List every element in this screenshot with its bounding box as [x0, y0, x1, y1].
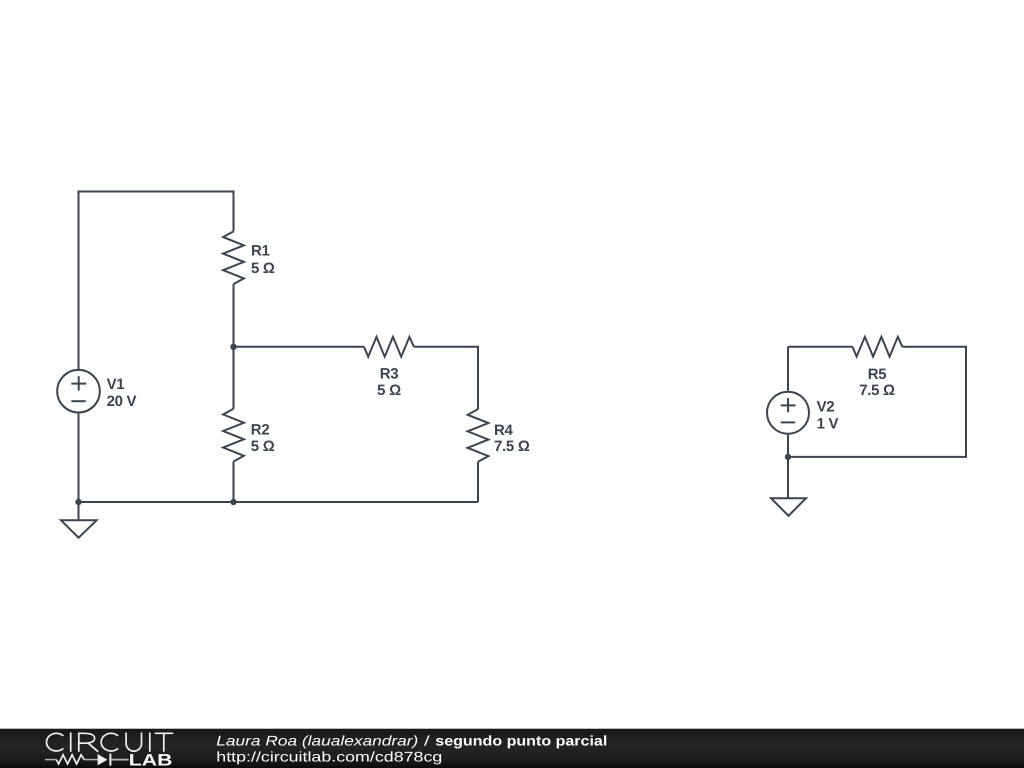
label R1	[251, 243, 275, 278]
node A	[230, 344, 236, 350]
svg-text:7.5 Ω: 7.5 Ω	[859, 382, 895, 399]
svg-text:http://circuitlab.com/cd878cg: http://circuitlab.com/cd878cg	[216, 749, 442, 765]
resistor R5	[852, 337, 902, 357]
node D	[785, 454, 791, 460]
voltage source V1	[57, 370, 100, 413]
wire	[787, 347, 789, 391]
svg-text:5 Ω: 5 Ω	[377, 382, 401, 399]
node C	[230, 499, 236, 505]
label V1	[107, 376, 137, 410]
wire	[234, 346, 365, 348]
logo diode triangle	[98, 754, 108, 765]
svg-text:7.5 Ω: 7.5 Ω	[494, 438, 530, 455]
wire	[79, 501, 479, 503]
svg-text:LAB: LAB	[129, 752, 173, 768]
logo CIRCUIT	[46, 733, 173, 752]
svg-text:R3: R3	[380, 366, 399, 383]
svg-text:20 V: 20 V	[107, 393, 137, 410]
svg-text:R1: R1	[251, 243, 270, 260]
wire	[78, 413, 80, 502]
wire	[414, 347, 478, 409]
label R4	[494, 422, 530, 455]
resistor R4	[468, 409, 489, 462]
svg-text:5 Ω: 5 Ω	[251, 260, 275, 277]
wire	[788, 347, 966, 457]
svg-text:R2: R2	[251, 422, 270, 439]
wire	[79, 192, 234, 370]
resistor R1	[223, 231, 244, 284]
svg-text:R4: R4	[494, 422, 514, 439]
wire	[477, 462, 479, 502]
wire	[788, 346, 852, 348]
label R5	[859, 366, 895, 399]
resistor R2	[223, 409, 244, 462]
wire	[233, 284, 235, 347]
wire	[233, 347, 235, 409]
logo resistor-diode symbol	[45, 754, 129, 766]
label R2	[251, 422, 275, 456]
label R3	[377, 366, 401, 400]
svg-text:R5: R5	[868, 366, 887, 383]
svg-text:V1: V1	[107, 376, 125, 393]
label V2	[817, 398, 839, 432]
wire	[233, 462, 235, 503]
svg-text:V2: V2	[817, 398, 835, 415]
ground	[61, 502, 97, 538]
resistor R3	[364, 337, 414, 357]
wire	[787, 435, 789, 457]
ground	[771, 457, 806, 516]
node B	[75, 499, 81, 505]
svg-text:Laura Roa (laualexandrar) / se: Laura Roa (laualexandrar) / segundo punt…	[216, 733, 607, 749]
svg-text:1 V: 1 V	[817, 416, 839, 433]
svg-text:5 Ω: 5 Ω	[251, 438, 275, 455]
voltage source V2	[767, 392, 809, 434]
